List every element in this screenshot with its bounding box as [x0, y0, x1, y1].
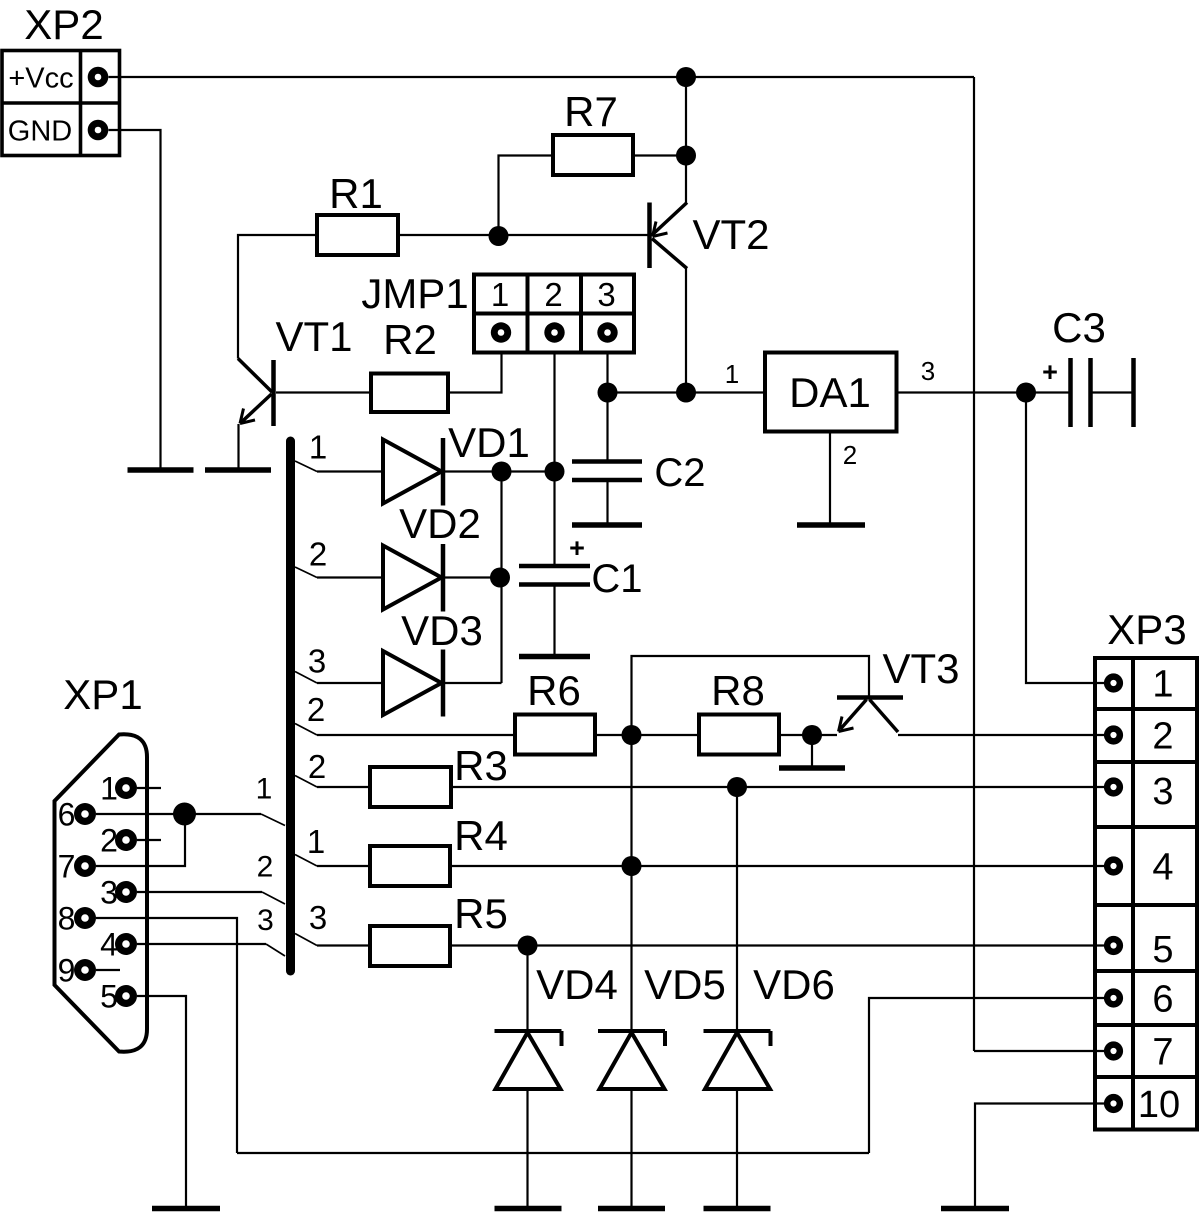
JMP1 terminal 3 — [597, 322, 617, 342]
XP1 terminal 1 — [115, 777, 137, 799]
wire VD3 cathode to vertical link — [445, 682, 502, 684]
ground at VT1 emitter — [205, 467, 271, 473]
bus tap 2 to R3 — [295, 776, 317, 788]
JMP1 terminal 1 — [491, 322, 511, 342]
wire R8 right — [779, 734, 837, 736]
svg-text:9: 9 — [58, 953, 76, 989]
wire VD2 cathode to node — [445, 576, 502, 578]
wire R8 node down — [811, 735, 813, 766]
wire XP1 pin 6 to bus — [96, 813, 261, 815]
wire XP1 pin 3 to bus — [137, 891, 262, 893]
svg-text:XP3: XP3 — [1107, 606, 1186, 653]
wire VD4 to ground — [526, 1089, 528, 1208]
resistor R3 — [370, 767, 451, 807]
XP1 terminal 2 — [115, 829, 137, 851]
XP1 terminal 7 — [74, 855, 96, 877]
ground at DA1 pin 2 — [797, 522, 865, 528]
connector XP2 — [2, 51, 120, 156]
wire VD5 to ground — [630, 1089, 632, 1208]
wire R6 node down to R4 node — [630, 735, 632, 866]
XP1 terminal 9 — [74, 959, 96, 981]
junction R3 row VD6 — [727, 777, 747, 797]
bus tap 2 to R6 — [295, 724, 317, 736]
XP3 terminal 5 — [1104, 936, 1123, 955]
svg-text:10: 10 — [1138, 1084, 1180, 1126]
wire C3 node down to XP3 pin 1 — [1026, 393, 1105, 684]
wire XP3 pin 6 to bottom rail — [869, 998, 1105, 1153]
svg-text:DA1: DA1 — [789, 369, 871, 416]
ground at VD4 — [495, 1206, 562, 1212]
XP3 terminal 1 — [1104, 673, 1123, 692]
svg-text:1: 1 — [256, 773, 273, 806]
junction VD1 node left — [492, 462, 512, 482]
zener diode VD4 — [495, 1031, 562, 1089]
svg-text:XP2: XP2 — [24, 1, 103, 48]
resistor R4 — [370, 846, 450, 886]
svg-text:2: 2 — [308, 748, 326, 785]
wire R4 to XP3 pin 4 — [450, 865, 1105, 867]
svg-text:3: 3 — [1152, 771, 1173, 813]
svg-text:VD3: VD3 — [401, 607, 483, 654]
bus tap 1 to VD1 — [295, 461, 317, 472]
XP1 terminal 5 — [115, 985, 137, 1007]
svg-text:1: 1 — [307, 823, 325, 860]
wire XP1 pin 8 to bottom rail — [96, 918, 237, 1153]
svg-text:VD4: VD4 — [536, 961, 618, 1008]
junction JMP1 pin 3 node — [598, 383, 618, 403]
resistor R5 — [370, 926, 450, 966]
svg-text:7: 7 — [58, 849, 76, 885]
junction VD2 node — [490, 568, 510, 588]
svg-text:C3: C3 — [1052, 304, 1106, 351]
svg-text:2: 2 — [843, 440, 857, 470]
wire XP1 pin 7 to junction — [96, 814, 185, 866]
wire R6 node up and over to VT3 base — [632, 656, 870, 735]
svg-text:+Vcc: +Vcc — [8, 63, 73, 95]
svg-text:R3: R3 — [454, 742, 508, 789]
wire stub XP1 pin 1 — [137, 787, 161, 789]
XP3 terminal 3 — [1104, 777, 1123, 796]
wire DA1 output — [897, 391, 1027, 393]
wire to VD1 anode — [317, 470, 383, 472]
junction R5 row VD4 — [518, 936, 538, 956]
svg-text:XP1: XP1 — [63, 671, 142, 718]
connector XP1 DB9 outline — [55, 734, 148, 1051]
wire R1 right to VT2 base — [398, 234, 648, 236]
bus tap 3 to VD3 — [295, 672, 317, 684]
wire R5 node down to VD4 — [526, 946, 528, 1032]
junction R6 output — [622, 725, 642, 745]
wire R4 node down to VD5 — [630, 866, 632, 1031]
ground at XP2 GND — [128, 467, 194, 473]
wire R2 right up to JMP1 pin 1 — [448, 353, 502, 393]
resistor R8 — [699, 715, 779, 755]
XP3 terminal 4 — [1104, 856, 1123, 875]
wire GND from XP2 — [109, 130, 161, 470]
junction VD1 node at JMP1 pin 2 line — [545, 462, 565, 482]
ground at C1 — [519, 654, 590, 660]
junction on R1-VT2 base wire — [489, 226, 509, 246]
svg-text:2: 2 — [307, 691, 325, 728]
svg-text:6: 6 — [58, 797, 76, 833]
svg-text:+: + — [569, 533, 585, 563]
transistor VT3 — [837, 698, 903, 733]
resistor R2 — [371, 374, 448, 413]
svg-text:R8: R8 — [711, 667, 765, 714]
svg-text:JMP1: JMP1 — [361, 270, 468, 317]
junction R8 output — [802, 725, 822, 745]
ground at VD6 — [704, 1206, 771, 1212]
wire mid node to DA1 input — [608, 391, 766, 393]
svg-text:GND: GND — [8, 116, 72, 148]
connector XP3 — [1095, 658, 1197, 1130]
svg-text:2: 2 — [309, 536, 327, 573]
svg-text:5: 5 — [1152, 929, 1173, 971]
wire VT1 base — [276, 391, 371, 393]
transistor VT1 — [238, 359, 274, 427]
svg-text:VD5: VD5 — [644, 961, 726, 1008]
wire VD6 to ground — [736, 1089, 738, 1208]
svg-text:1: 1 — [725, 359, 739, 389]
wire VT2 collector vertical — [685, 268, 687, 393]
svg-text:2: 2 — [544, 276, 562, 313]
ground at XP3 pin 10 — [941, 1206, 1009, 1212]
svg-text:VD6: VD6 — [753, 961, 835, 1008]
svg-text:7: 7 — [1152, 1032, 1173, 1074]
svg-text:VT2: VT2 — [692, 211, 769, 258]
svg-text:3: 3 — [257, 904, 274, 937]
junction R4 row VD5 — [622, 856, 642, 876]
svg-text:C1: C1 — [591, 557, 642, 601]
XP3 terminal 2 — [1104, 725, 1123, 744]
wire R6 to R8 — [595, 734, 699, 736]
svg-text:VT3: VT3 — [882, 645, 959, 692]
bus tap 2 to VD2 — [295, 567, 317, 578]
wire to R4 — [317, 865, 370, 867]
ground at VD5 — [598, 1206, 665, 1212]
wire bottom rail — [237, 1152, 869, 1154]
svg-text:R2: R2 — [383, 316, 437, 363]
transistor VT2 — [650, 203, 688, 269]
resistor R1 — [317, 215, 398, 255]
bus tap 3 to R5 — [295, 934, 317, 946]
svg-text:1: 1 — [491, 276, 509, 313]
svg-text:+: + — [1042, 357, 1058, 387]
wire DA1 pin 2 down — [829, 432, 831, 525]
svg-text:1: 1 — [309, 429, 327, 466]
capacitor C1 polarized — [519, 566, 590, 655]
wire VT1 emitter down — [237, 424, 239, 470]
svg-text:2: 2 — [257, 851, 274, 884]
wire R5 to XP3 pin 5 — [450, 944, 1105, 946]
wire into XP3 pin 7 — [974, 1050, 1105, 1052]
junction VT2 collector on mid wire — [676, 383, 696, 403]
wire to VD2 anode — [317, 576, 383, 578]
resistor R7 — [553, 135, 633, 175]
diode VD3 — [383, 650, 443, 717]
svg-text:1: 1 — [1152, 664, 1173, 706]
svg-text:VT1: VT1 — [275, 313, 352, 360]
voltage regulator DA1 — [765, 353, 897, 432]
svg-text:R5: R5 — [454, 890, 508, 937]
svg-text:VD1: VD1 — [448, 419, 530, 466]
ground at XP1 pin 5 — [152, 1206, 220, 1212]
wire stub XP1 pin 2 — [137, 839, 161, 841]
wire VD1 cathode to node — [445, 470, 555, 472]
XP2 terminal GND — [88, 120, 109, 141]
wire JMP1 pin 2 vertical to VD1 node and C1 — [553, 353, 555, 567]
svg-text:R4: R4 — [454, 812, 508, 859]
XP3 terminal 6 — [1104, 988, 1123, 1007]
ground at C2 — [572, 522, 642, 528]
jumper header JMP1 — [474, 275, 634, 353]
resistor R6 — [515, 715, 595, 755]
svg-text:4: 4 — [1152, 847, 1173, 889]
svg-text:6: 6 — [1152, 979, 1173, 1021]
junction XP1 pins 6-7 — [173, 803, 196, 826]
wire XP3 pin 10 to ground — [975, 1104, 1105, 1209]
wire to R3 — [317, 786, 370, 788]
XP1 terminal 3 — [115, 881, 137, 903]
svg-text:3: 3 — [309, 899, 327, 936]
bus tap diagonal from XP1 pins 6,7 — [261, 814, 285, 826]
XP3 terminal 10 — [1104, 1094, 1123, 1113]
wire R3 to XP3 pin 3 — [451, 786, 1105, 788]
wire stub XP1 pin 9 — [96, 969, 120, 971]
bus tap diagonal from XP1 pin 3 — [262, 892, 285, 904]
svg-text:8: 8 — [58, 901, 76, 937]
XP1 terminal 6 — [74, 803, 96, 825]
svg-text:R6: R6 — [527, 667, 581, 714]
svg-text:R7: R7 — [564, 88, 618, 135]
ground at VT3 emitter node — [779, 765, 845, 771]
zener diode VD5 — [598, 1031, 665, 1089]
XP3 terminal 7 — [1104, 1041, 1123, 1060]
wire R1 left to VT1 collector — [238, 235, 317, 359]
svg-text:C2: C2 — [654, 451, 705, 495]
JMP1 terminal 2 — [544, 322, 564, 342]
wire +Vcc right vertical to XP3 pin 7 — [973, 77, 975, 1051]
wire R7 right to emitter vertical — [633, 154, 686, 156]
junction DA1 output node — [1016, 383, 1036, 403]
wire VD cathode vertical link — [500, 472, 502, 684]
svg-text:R1: R1 — [329, 170, 383, 217]
svg-text:2: 2 — [1152, 716, 1173, 758]
junction R7 right — [676, 146, 696, 166]
svg-text:3: 3 — [921, 356, 935, 386]
wire XP1 pin 4 to bus — [137, 943, 266, 945]
signal bus bar — [286, 441, 295, 971]
capacitor C3 polarized — [1026, 358, 1134, 427]
wire R3 node down to VD6 — [736, 787, 738, 1031]
wire to R6 — [317, 734, 515, 736]
bus tap 1 to R4 — [295, 855, 317, 867]
svg-text:3: 3 — [597, 276, 615, 313]
capacitor C2 — [572, 393, 642, 525]
bus tap diagonal from XP1 pin 4 — [266, 944, 285, 956]
diode VD2 — [383, 544, 443, 612]
XP1 terminal 4 — [115, 933, 137, 955]
wire to VD3 anode — [317, 682, 383, 684]
wire VT3 to XP3 pin 2 — [898, 734, 1105, 736]
wire to R5 — [317, 944, 370, 946]
junction on +Vcc rail — [676, 67, 696, 87]
wire R7 left down to base wire — [499, 156, 554, 237]
XP1 terminal 8 — [74, 907, 96, 929]
diode VD1 — [383, 438, 443, 506]
wire VT2 emitter vertical — [685, 77, 687, 204]
svg-text:3: 3 — [308, 643, 326, 680]
wire JMP1 pin 3 vertical — [606, 353, 608, 393]
wire XP1 pin 5 down to ground — [137, 996, 186, 1208]
XP2 terminal +Vcc — [88, 67, 109, 88]
zener diode VD6 — [704, 1031, 771, 1089]
wire +Vcc rail top — [109, 76, 975, 78]
svg-text:VD2: VD2 — [399, 500, 481, 547]
